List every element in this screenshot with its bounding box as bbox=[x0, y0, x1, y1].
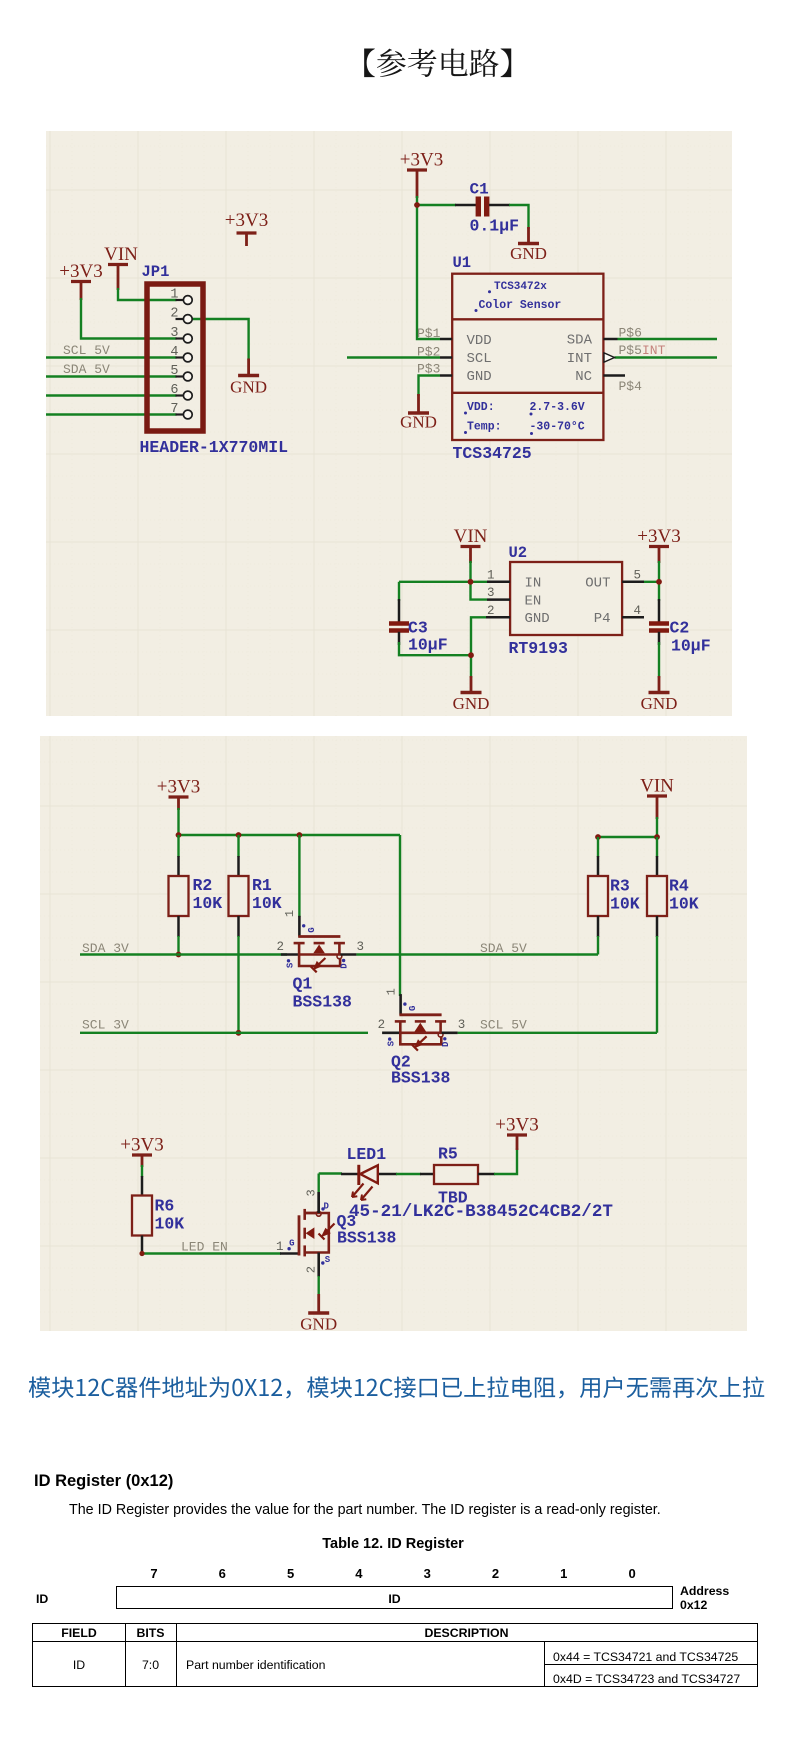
svg-text:G: G bbox=[307, 927, 317, 932]
svg-text:1: 1 bbox=[487, 568, 495, 582]
svg-text:D: D bbox=[340, 963, 350, 969]
svg-text:BSS138: BSS138 bbox=[293, 993, 353, 1012]
svg-text:C1: C1 bbox=[470, 181, 489, 199]
svg-text:2: 2 bbox=[276, 940, 284, 954]
svg-text:HEADER-1X770MIL: HEADER-1X770MIL bbox=[140, 438, 289, 457]
svg-text:SCL 5V: SCL 5V bbox=[480, 1018, 527, 1033]
svg-text:GND: GND bbox=[510, 244, 547, 263]
svg-text:R2: R2 bbox=[193, 876, 213, 895]
svg-text:3: 3 bbox=[305, 1189, 319, 1196]
svg-text:+3V3: +3V3 bbox=[495, 1115, 538, 1136]
svg-text:1: 1 bbox=[384, 988, 398, 995]
svg-text:R4: R4 bbox=[669, 877, 689, 896]
svg-text:IN: IN bbox=[525, 576, 542, 592]
svg-text:RT9193: RT9193 bbox=[509, 639, 569, 658]
svg-text:10µF: 10µF bbox=[408, 636, 448, 655]
svg-text:10K: 10K bbox=[193, 894, 223, 913]
svg-text:R3: R3 bbox=[610, 877, 630, 896]
svg-text:TCS3472x: TCS3472x bbox=[494, 281, 547, 293]
svg-text:4: 4 bbox=[170, 345, 178, 360]
svg-text:6: 6 bbox=[170, 383, 178, 398]
svg-text:SCL 5V: SCL 5V bbox=[63, 343, 110, 358]
svg-text:VIN: VIN bbox=[454, 526, 488, 547]
svg-text:U1: U1 bbox=[453, 254, 472, 272]
svg-text:Q1: Q1 bbox=[293, 975, 313, 994]
svg-text:D: D bbox=[323, 1201, 329, 1211]
svg-text:SDA: SDA bbox=[567, 333, 593, 349]
svg-text:TBD: TBD bbox=[438, 1189, 468, 1208]
svg-text:P$4: P$4 bbox=[619, 379, 643, 394]
svg-text:G: G bbox=[408, 1006, 418, 1011]
svg-text:3: 3 bbox=[487, 586, 495, 600]
svg-text:BSS138: BSS138 bbox=[337, 1229, 397, 1248]
svg-text:3: 3 bbox=[458, 1018, 466, 1032]
svg-text:2: 2 bbox=[170, 307, 178, 322]
svg-text:GND: GND bbox=[467, 369, 492, 385]
svg-text:C2: C2 bbox=[670, 619, 690, 638]
svg-text:+3V3: +3V3 bbox=[400, 150, 443, 171]
svg-text:10K: 10K bbox=[669, 895, 699, 914]
svg-text:5: 5 bbox=[634, 568, 642, 582]
svg-text:+3V3: +3V3 bbox=[157, 777, 200, 798]
svg-text:VDD:: VDD: bbox=[467, 401, 495, 414]
svg-text:INT: INT bbox=[567, 351, 592, 367]
svg-text:R1: R1 bbox=[252, 876, 272, 895]
svg-text:EN: EN bbox=[525, 593, 542, 609]
svg-text:Color Sensor: Color Sensor bbox=[479, 299, 562, 312]
svg-text:GND: GND bbox=[230, 378, 267, 397]
svg-text:+3V3: +3V3 bbox=[637, 526, 680, 547]
svg-text:SCL: SCL bbox=[467, 351, 492, 367]
svg-text:P$5: P$5 bbox=[619, 343, 642, 358]
svg-text:-30-70°C: -30-70°C bbox=[530, 421, 585, 434]
svg-text:Temp:: Temp: bbox=[467, 421, 502, 434]
svg-text:5: 5 bbox=[170, 364, 178, 379]
svg-text:SCL 3V: SCL 3V bbox=[82, 1018, 129, 1033]
svg-text:VDD: VDD bbox=[467, 333, 492, 349]
svg-text:4: 4 bbox=[634, 604, 642, 618]
svg-text:+3V3: +3V3 bbox=[225, 210, 268, 231]
svg-text:P$1: P$1 bbox=[417, 326, 441, 341]
svg-text:3: 3 bbox=[357, 940, 365, 954]
svg-text:2: 2 bbox=[378, 1018, 386, 1032]
svg-text:2: 2 bbox=[487, 604, 495, 618]
svg-text:SDA 5V: SDA 5V bbox=[480, 941, 527, 956]
svg-text:GND: GND bbox=[300, 1315, 337, 1332]
svg-text:VIN: VIN bbox=[640, 776, 674, 797]
svg-text:BSS138: BSS138 bbox=[391, 1069, 451, 1088]
svg-text:2.7-3.6V: 2.7-3.6V bbox=[530, 401, 585, 414]
svg-text:+3V3: +3V3 bbox=[59, 261, 102, 282]
svg-text:JP1: JP1 bbox=[142, 263, 170, 281]
svg-text:GND: GND bbox=[641, 694, 678, 713]
svg-text:1: 1 bbox=[170, 288, 178, 303]
svg-text:P$3: P$3 bbox=[417, 362, 440, 377]
svg-text:10K: 10K bbox=[252, 894, 282, 913]
svg-text:1: 1 bbox=[283, 910, 297, 917]
svg-text:VIN: VIN bbox=[104, 244, 138, 265]
svg-text:D: D bbox=[441, 1041, 451, 1047]
svg-text:GND: GND bbox=[453, 694, 490, 713]
svg-text:SDA 3V: SDA 3V bbox=[82, 941, 129, 956]
svg-text:7: 7 bbox=[170, 402, 178, 417]
svg-text:R6: R6 bbox=[155, 1197, 175, 1216]
svg-text:INT: INT bbox=[642, 343, 666, 358]
svg-text:LED1: LED1 bbox=[347, 1145, 387, 1164]
svg-text:TCS34725: TCS34725 bbox=[453, 444, 532, 463]
svg-text:+3V3: +3V3 bbox=[120, 1135, 163, 1156]
svg-text:S: S bbox=[285, 962, 295, 968]
svg-text:45-21/LK2C-B38452C4CB2/2T: 45-21/LK2C-B38452C4CB2/2T bbox=[349, 1202, 613, 1222]
svg-text:NC: NC bbox=[575, 369, 592, 385]
svg-text:S: S bbox=[325, 1255, 331, 1265]
svg-text:P4: P4 bbox=[594, 611, 611, 627]
svg-text:GND: GND bbox=[525, 611, 550, 627]
svg-text:GND: GND bbox=[400, 412, 437, 431]
svg-text:2: 2 bbox=[305, 1266, 319, 1273]
svg-text:OUT: OUT bbox=[585, 576, 610, 592]
svg-text:3: 3 bbox=[170, 326, 178, 341]
svg-text:P$6: P$6 bbox=[619, 325, 642, 340]
svg-text:U2: U2 bbox=[509, 544, 528, 562]
svg-text:10K: 10K bbox=[155, 1215, 185, 1234]
svg-text:SDA 5V: SDA 5V bbox=[63, 362, 110, 377]
svg-text:10K: 10K bbox=[610, 895, 640, 914]
svg-text:1: 1 bbox=[276, 1240, 284, 1254]
svg-text:R5: R5 bbox=[438, 1145, 458, 1164]
svg-text:LED EN: LED EN bbox=[181, 1240, 228, 1255]
svg-text:P$2: P$2 bbox=[417, 344, 440, 359]
svg-text:0.1µF: 0.1µF bbox=[470, 217, 520, 236]
svg-text:G: G bbox=[289, 1238, 294, 1248]
svg-text:10µF: 10µF bbox=[671, 637, 711, 656]
svg-text:S: S bbox=[387, 1040, 397, 1046]
